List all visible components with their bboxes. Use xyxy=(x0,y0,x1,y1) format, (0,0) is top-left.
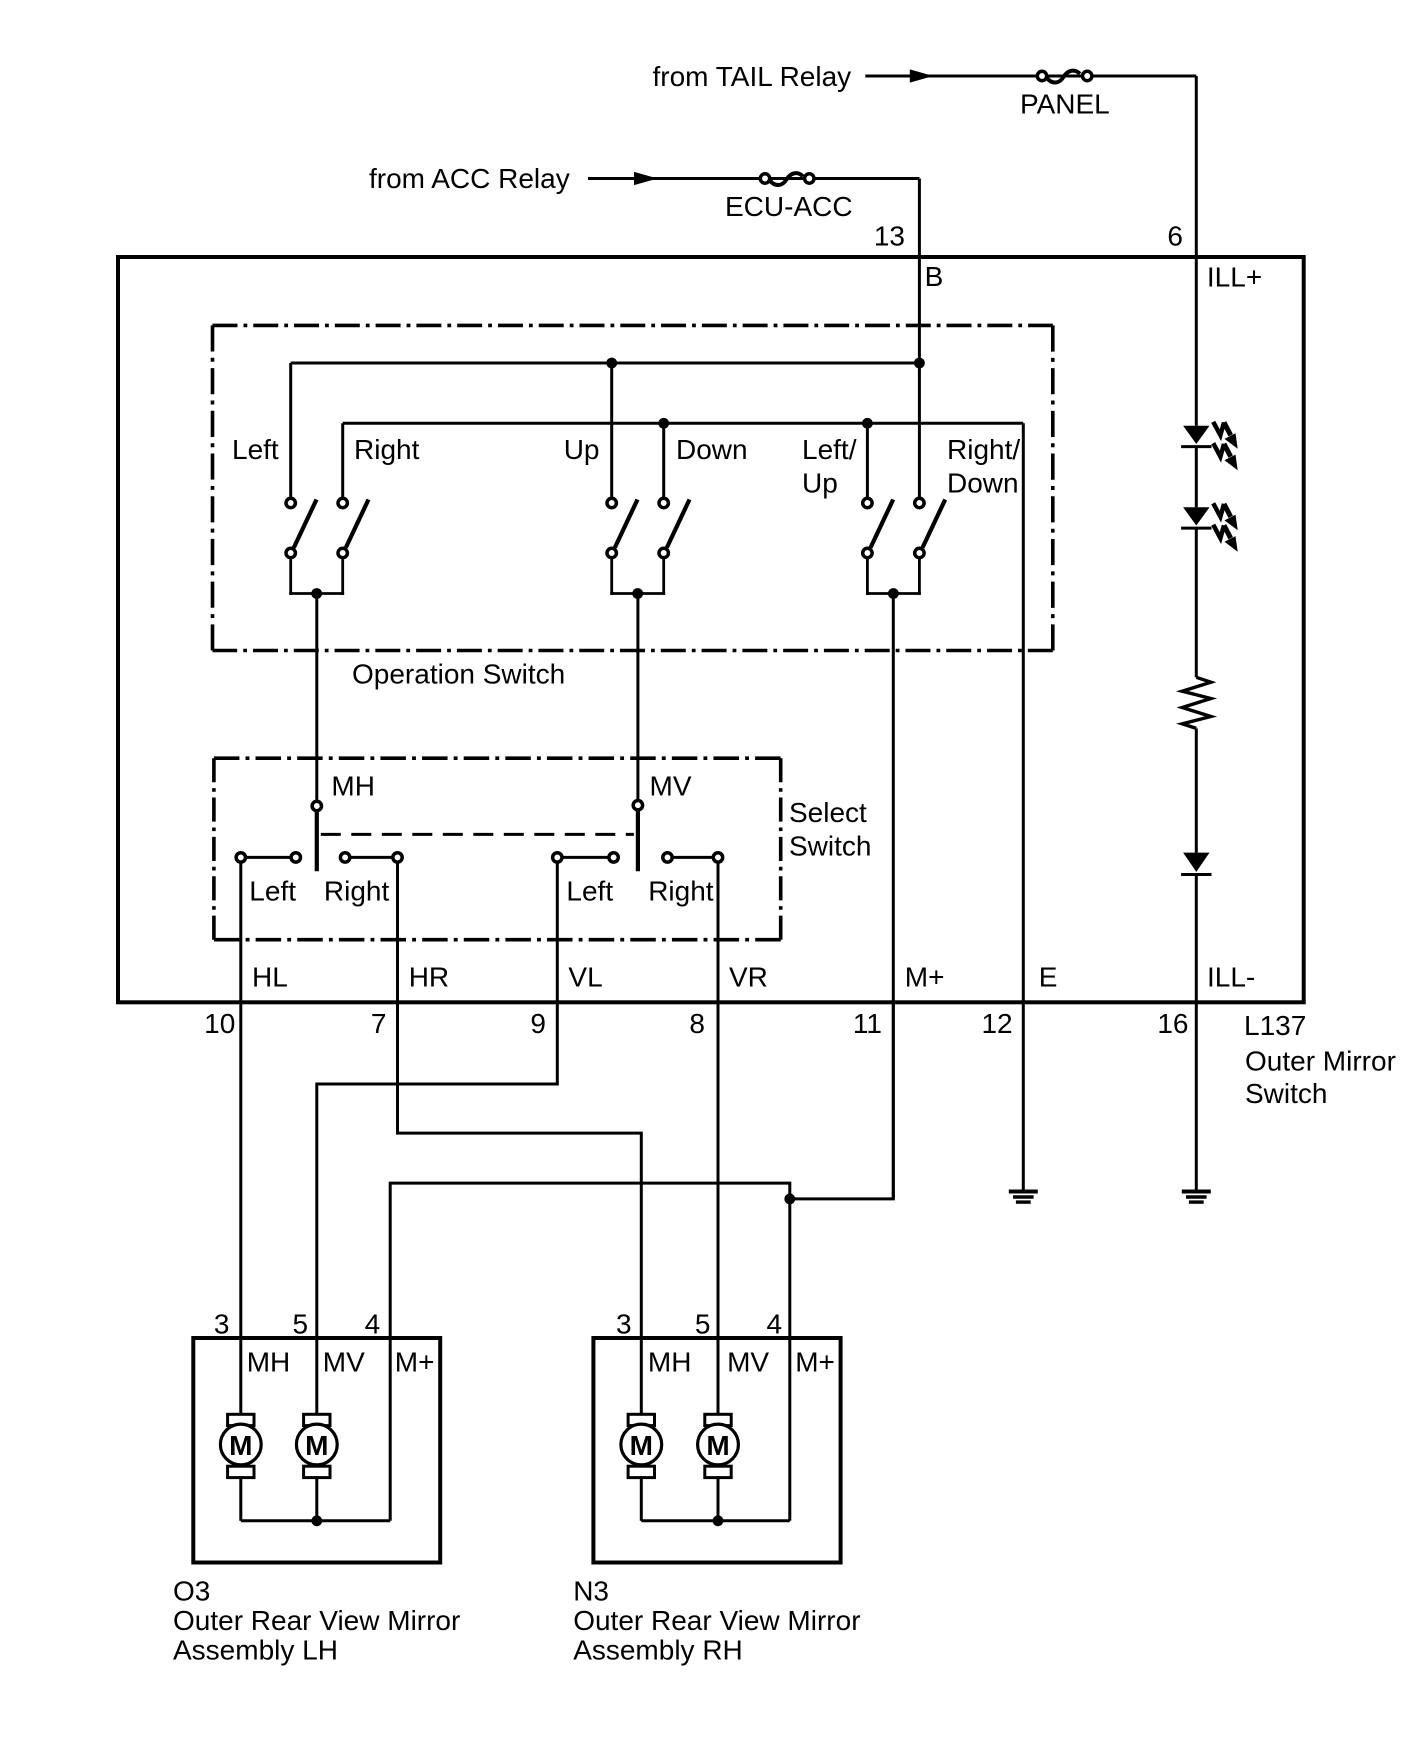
svg-text:7: 7 xyxy=(371,1008,387,1039)
svg-text:Up: Up xyxy=(564,434,600,465)
svg-text:E: E xyxy=(1039,962,1058,993)
svg-text:Right: Right xyxy=(648,875,714,906)
svg-text:Switch: Switch xyxy=(1245,1078,1327,1109)
svg-text:8: 8 xyxy=(689,1008,705,1039)
svg-text:Right: Right xyxy=(324,875,390,906)
svg-text:Outer Mirror: Outer Mirror xyxy=(1245,1046,1396,1077)
svg-text:O3: O3 xyxy=(173,1576,210,1607)
svg-text:Switch: Switch xyxy=(789,830,871,861)
svg-text:M+: M+ xyxy=(395,1346,435,1377)
svg-text:M: M xyxy=(305,1430,328,1461)
svg-text:VL: VL xyxy=(568,962,602,993)
svg-text:MH: MH xyxy=(331,771,375,802)
svg-text:Up: Up xyxy=(802,468,838,499)
svg-text:11: 11 xyxy=(853,1008,882,1039)
svg-text:VR: VR xyxy=(729,962,768,993)
svg-text:9: 9 xyxy=(530,1008,546,1039)
svg-text:Right/: Right/ xyxy=(947,434,1020,465)
svg-text:12: 12 xyxy=(981,1008,1012,1039)
svg-text:5: 5 xyxy=(293,1309,309,1340)
svg-text:HL: HL xyxy=(252,962,288,993)
svg-text:Operation Switch: Operation Switch xyxy=(352,659,565,690)
svg-text:M+: M+ xyxy=(795,1346,835,1377)
svg-text:N3: N3 xyxy=(573,1576,609,1607)
svg-text:Right: Right xyxy=(354,434,420,465)
svg-text:6: 6 xyxy=(1167,221,1183,252)
svg-text:Select: Select xyxy=(789,797,867,828)
svg-text:MH: MH xyxy=(247,1346,291,1377)
svg-text:Assembly RH: Assembly RH xyxy=(573,1635,743,1666)
svg-text:MH: MH xyxy=(648,1346,692,1377)
svg-text:Left/: Left/ xyxy=(802,434,857,465)
svg-text:M: M xyxy=(630,1430,653,1461)
svg-text:10: 10 xyxy=(204,1008,235,1039)
svg-text:ILL-: ILL- xyxy=(1207,962,1255,993)
svg-text:MV: MV xyxy=(323,1346,365,1377)
svg-text:from TAIL Relay: from TAIL Relay xyxy=(653,61,852,92)
svg-text:5: 5 xyxy=(695,1309,711,1340)
svg-text:Outer Rear View Mirror: Outer Rear View Mirror xyxy=(573,1605,860,1636)
svg-text:13: 13 xyxy=(874,221,905,252)
svg-text:ECU-ACC: ECU-ACC xyxy=(725,191,853,222)
svg-text:3: 3 xyxy=(214,1309,230,1340)
svg-text:HR: HR xyxy=(409,962,449,993)
svg-text:PANEL: PANEL xyxy=(1020,89,1110,120)
svg-text:L137: L137 xyxy=(1244,1010,1306,1041)
svg-text:Down: Down xyxy=(947,468,1019,499)
svg-text:Down: Down xyxy=(676,434,748,465)
svg-text:Left: Left xyxy=(232,434,279,465)
svg-text:M+: M+ xyxy=(905,962,945,993)
svg-text:MV: MV xyxy=(650,771,692,802)
svg-text:16: 16 xyxy=(1157,1008,1188,1039)
svg-text:Left: Left xyxy=(566,875,613,906)
svg-text:M: M xyxy=(706,1430,729,1461)
svg-text:Outer Rear View Mirror: Outer Rear View Mirror xyxy=(173,1605,460,1636)
svg-text:3: 3 xyxy=(616,1309,632,1340)
svg-text:ILL+: ILL+ xyxy=(1207,262,1262,293)
svg-text:Assembly LH: Assembly LH xyxy=(173,1635,338,1666)
svg-text:B: B xyxy=(925,261,944,292)
svg-text:Left: Left xyxy=(249,875,296,906)
svg-text:from ACC Relay: from ACC Relay xyxy=(369,163,570,194)
svg-text:M: M xyxy=(229,1430,252,1461)
svg-text:MV: MV xyxy=(727,1346,769,1377)
svg-text:4: 4 xyxy=(767,1309,783,1340)
svg-text:4: 4 xyxy=(365,1309,381,1340)
